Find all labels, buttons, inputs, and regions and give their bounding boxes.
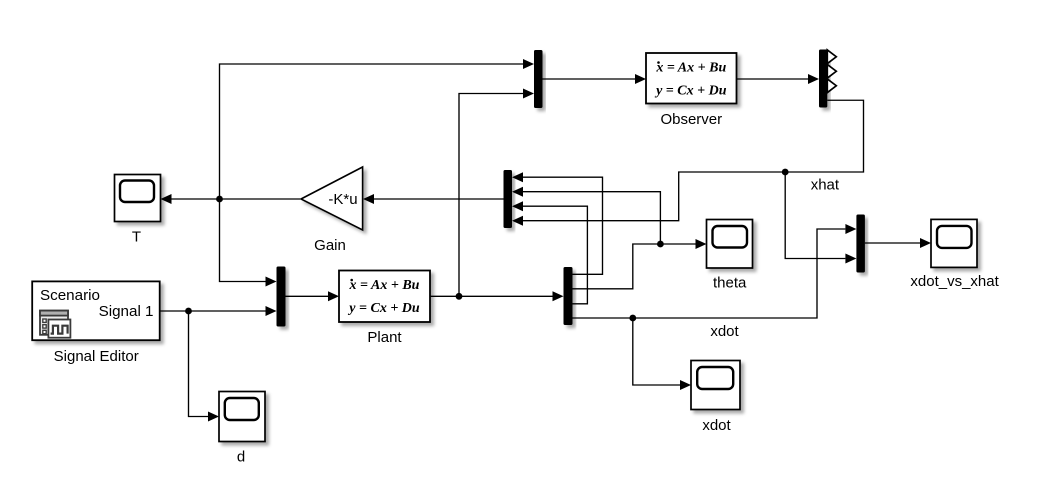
demux D2 unconnected port 2 (827, 64, 836, 78)
demux D2 unconnected port 3 (827, 79, 836, 93)
scope xdot (691, 361, 740, 410)
wire mux M1 to Plant (286, 295, 329, 297)
svg-text:d: d (237, 449, 245, 466)
svg-text:T: T (132, 229, 141, 246)
junction node theta (657, 241, 664, 248)
mux M2 flipped feeding Gain (504, 170, 513, 228)
wire demux D1 output 3 to mux M2 input 3 (523, 206, 587, 304)
scope xdot_vs_xhat (931, 219, 977, 267)
svg-text:y = Cx + Du: y = Cx + Du (347, 301, 420, 316)
wire branch down to scope d (189, 311, 209, 417)
wire mux M2 output to Gain input (374, 198, 504, 200)
wire Signal Editor to mux M1 input 2 (160, 310, 266, 312)
demux D2 after Observer (819, 50, 827, 108)
wire xhat branch down to mux M4 input 2 (785, 172, 845, 259)
demux D2 unconnected port 1 (827, 50, 836, 64)
wire mux M4 to scope xdot_vs_xhat (865, 242, 920, 244)
state-space block Plant (339, 271, 430, 323)
mux M1 before Plant (277, 267, 286, 327)
svg-text:y = Cx + Du: y = Cx + Du (654, 83, 727, 98)
wire demux D1 output 4 xdot to mux M4 input 1 (573, 229, 846, 318)
svg-text:Observer: Observer (660, 111, 722, 128)
svg-text:Plant: Plant (367, 329, 402, 346)
svg-text:xdot_vs_xhat: xdot_vs_xhat (910, 273, 999, 290)
wire mux M3 to Observer (543, 78, 636, 80)
wire junction down to mux M1 input 1 (220, 199, 266, 282)
svg-text:-K*u: -K*u (328, 191, 357, 208)
signal editor block Signal Editor (32, 281, 160, 340)
scope d (219, 392, 265, 442)
state-space block Observer (646, 53, 737, 104)
gain block Gain -K*u (301, 167, 363, 230)
mux M3 before Observer (534, 50, 543, 108)
wire demux D1 output 1 to mux M2 input 1 (523, 177, 603, 274)
wire Plant output to demux D1 (430, 295, 553, 297)
wire xdot branch down to scope xdot (633, 318, 680, 385)
scope theta (707, 220, 753, 269)
junction node Plant output (456, 293, 463, 300)
junction node on Gain output (216, 196, 223, 203)
svg-text:Gain: Gain (314, 237, 346, 254)
junction node xdot (629, 315, 636, 322)
svg-text:Scenario: Scenario (40, 287, 100, 304)
svg-text:xhat: xhat (811, 177, 840, 194)
wire Plant output up to mux M3 input 2 (459, 94, 523, 297)
svg-text:Signal Editor: Signal Editor (54, 348, 139, 365)
svg-text:x = Ax + Bu: x = Ax + Bu (655, 61, 726, 76)
scope T (115, 175, 161, 222)
wire junction up to mux M3 input 1 (220, 64, 524, 199)
wire theta branch up to mux M2 input 2 (523, 192, 660, 244)
wire demux D1 output 2 to theta (573, 244, 696, 289)
svg-text:x = Ax + Bu: x = Ax + Bu (349, 278, 420, 293)
svg-text:xdot: xdot (710, 323, 739, 340)
junction node xhat (782, 169, 789, 176)
svg-text:xdot: xdot (702, 417, 731, 434)
mux M4 before xdot_vs_xhat (856, 215, 865, 273)
junction node Signal 1 (185, 308, 192, 315)
wire demux D2 output xhat to mux M2 input 4 (523, 100, 864, 220)
wire Gain output to scope T (172, 198, 301, 200)
svg-text:theta: theta (713, 275, 747, 292)
wire Observer to demux D2 (737, 78, 809, 80)
svg-text:Signal 1: Signal 1 (99, 303, 154, 320)
demux D1 after Plant (564, 267, 573, 325)
